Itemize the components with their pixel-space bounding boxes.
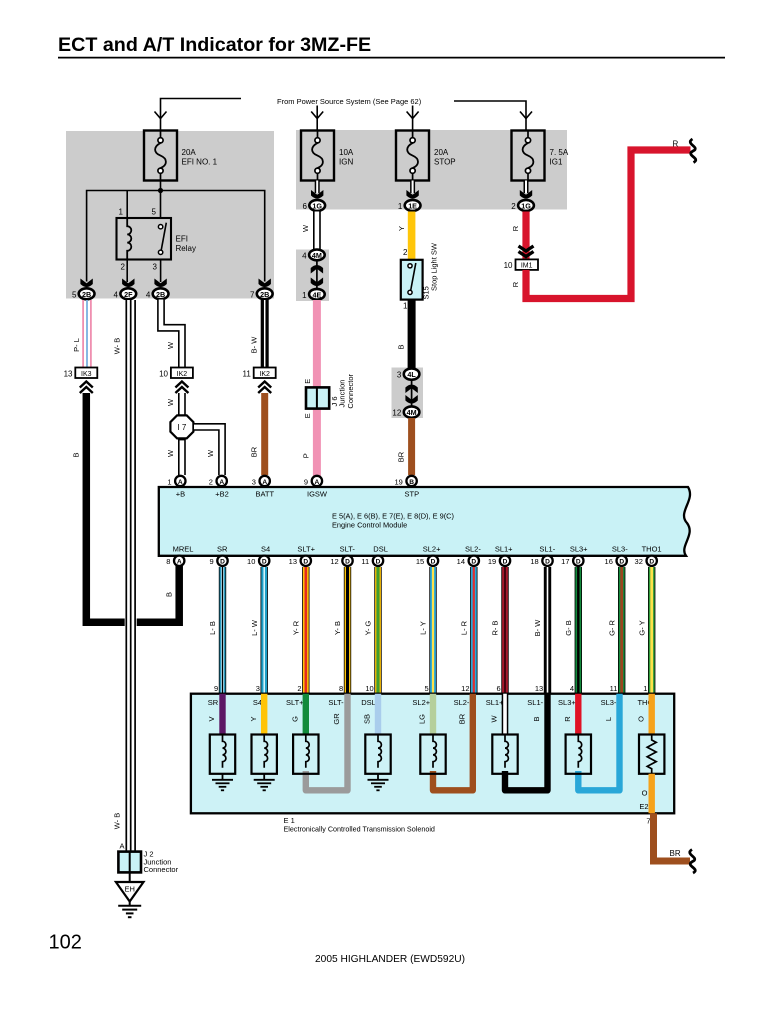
svg-text:EFI NO. 1: EFI NO. 1 (182, 158, 218, 167)
svg-text:LG: LG (418, 714, 427, 724)
svg-text:Stop Light SW: Stop Light SW (429, 242, 438, 291)
label E1 (284, 816, 435, 834)
wire B from S15 to 4L (396, 300, 411, 368)
wire feed to IGN fuse (311, 106, 323, 132)
svg-text:3: 3 (397, 371, 402, 380)
svg-text:2: 2 (511, 202, 516, 211)
svg-text:32: 32 (635, 557, 643, 566)
svg-text:16: 16 (605, 557, 613, 566)
wire Y from 1E to S15 (397, 212, 411, 261)
svg-text:SR: SR (208, 698, 219, 707)
svg-text:G- B: G- B (564, 620, 573, 635)
svg-text:Y- B: Y- B (333, 621, 342, 635)
svg-text:11: 11 (361, 557, 369, 566)
svg-text:15: 15 (416, 557, 424, 566)
svg-text:17: 17 (561, 557, 569, 566)
svg-text:12: 12 (392, 409, 401, 418)
wire O to resistor THO (636, 694, 651, 735)
fuse 10A IGN (301, 131, 354, 181)
title (58, 34, 725, 58)
wire BR from IK2 to BATT (250, 393, 265, 475)
wire relay pin2 down (126, 260, 128, 283)
svg-text:E: E (303, 379, 312, 384)
svg-text:2005 HIGHLANDER (EWD592U): 2005 HIGHLANDER (EWD592U) (315, 954, 465, 965)
svg-text:SLT-: SLT- (328, 698, 344, 707)
svg-text:11: 11 (610, 684, 618, 693)
svg-text:1G: 1G (521, 201, 531, 210)
svg-text:EFI: EFI (176, 235, 188, 244)
svg-text:D: D (503, 559, 508, 566)
svg-text:SR: SR (217, 545, 228, 554)
svg-text:6: 6 (497, 684, 501, 693)
svg-text:O: O (642, 789, 648, 798)
svg-text:W: W (166, 398, 175, 406)
svg-text:2B: 2B (260, 290, 269, 299)
svg-text:Y: Y (397, 226, 406, 231)
svg-text:10: 10 (159, 369, 168, 378)
svg-text:Y: Y (249, 716, 258, 721)
wire Y-B SLT- (333, 567, 347, 694)
svg-text:1: 1 (302, 291, 307, 300)
svg-text:E2: E2 (639, 802, 648, 811)
pin A2 +B2 (209, 476, 229, 499)
connector 2F pin 4 (114, 279, 137, 300)
wire feed to EFI fuse (155, 99, 242, 132)
pin D18 SL1- (530, 556, 552, 567)
svg-text:9: 9 (210, 557, 214, 566)
wire W from I7 to +B (166, 438, 182, 475)
svg-text:D: D (262, 559, 267, 566)
wire R from 1G2 to IM1 (511, 212, 526, 260)
wire GR return SLT- (306, 694, 348, 791)
svg-text:S4: S4 (253, 698, 262, 707)
svg-text:DSL: DSL (361, 698, 376, 707)
wire LG to solenoid SL2+ (418, 694, 433, 735)
pin D12 SLT- (330, 556, 352, 567)
wire fuse IG1 to 1G (524, 181, 529, 194)
wire W from 2B4 to IK2 (161, 300, 182, 368)
svg-text:Electronically Controlled Tran: Electronically Controlled Transmission S… (284, 825, 435, 834)
svg-text:W: W (166, 449, 175, 457)
svg-text:IG1: IG1 (550, 158, 563, 167)
svg-text:Engine Control Module: Engine Control Module (332, 521, 407, 530)
svg-text:10A: 10A (339, 148, 354, 157)
wire BR return SL2- (433, 694, 473, 791)
svg-text:BR: BR (670, 849, 681, 858)
pin B19 STP (394, 476, 419, 499)
svg-text:G- Y: G- Y (637, 620, 646, 635)
svg-text:D: D (376, 559, 381, 566)
switch S15 stop light SW (401, 242, 439, 310)
pin D9 SR (210, 556, 228, 567)
svg-text:1G: 1G (312, 201, 322, 210)
relay EFI (117, 208, 196, 272)
svg-text:SL1-: SL1- (527, 698, 543, 707)
svg-text:8: 8 (339, 684, 343, 693)
pin A8 MREL (166, 556, 184, 567)
wire V to solenoid SR (207, 694, 222, 735)
solenoid coil SR (210, 735, 235, 774)
wire between 4L and 4M (405, 381, 417, 407)
pin D10 S4 (247, 556, 269, 567)
pin D16 SL3- (605, 556, 627, 567)
solenoid coil S4 (252, 735, 277, 774)
svg-text:20A: 20A (434, 148, 449, 157)
wire Y-G DSL (364, 567, 378, 694)
svg-text:13: 13 (64, 369, 73, 378)
junction IK2 pin 10 (159, 368, 193, 394)
pin A9 IGSW (304, 476, 328, 499)
shaded block fuse band right (296, 130, 567, 210)
wire BR from E2 pin 7 to page break (646, 813, 690, 861)
svg-text:12: 12 (330, 557, 338, 566)
junction connector J6 (306, 373, 355, 408)
transmission solenoid box E1 (191, 694, 674, 814)
solenoid coil SL3 (566, 735, 591, 774)
svg-text:L- W: L- W (250, 619, 259, 636)
ground below DSL solenoid (368, 774, 389, 791)
svg-text:2F: 2F (124, 290, 133, 299)
svg-text:SLT-: SLT- (340, 545, 356, 554)
svg-text:13: 13 (535, 684, 543, 693)
svg-text:SL1+: SL1+ (495, 545, 513, 554)
svg-text:Relay: Relay (176, 244, 196, 253)
svg-text:D: D (649, 559, 654, 566)
fuse 20A EFI NO.1 (144, 131, 218, 181)
svg-text:SL3-: SL3- (612, 545, 628, 554)
svg-text:D: D (619, 559, 624, 566)
svg-text:5: 5 (72, 290, 77, 299)
connector 4M pin 4 (302, 250, 325, 261)
svg-text:B: B (532, 716, 541, 721)
noise filter I7 (170, 415, 193, 438)
svg-text:10: 10 (504, 261, 513, 270)
svg-text:EH: EH (124, 885, 134, 894)
ECM engine control module E5-E9 (159, 487, 690, 556)
svg-text:STOP: STOP (434, 158, 456, 167)
svg-text:1: 1 (167, 477, 171, 486)
svg-text:L: L (604, 717, 613, 721)
svg-text:10: 10 (247, 557, 255, 566)
svg-text:BATT: BATT (255, 490, 274, 499)
svg-text:20A: 20A (182, 148, 197, 157)
svg-text:W: W (206, 449, 215, 457)
svg-text:IGN: IGN (339, 158, 353, 167)
svg-text:SLT+: SLT+ (286, 698, 304, 707)
svg-text:4: 4 (146, 290, 151, 299)
svg-text:9: 9 (214, 684, 218, 693)
wire O from resistor to E2 (639, 774, 651, 814)
ground below S4 solenoid (254, 774, 275, 791)
svg-text:SL2+: SL2+ (412, 698, 430, 707)
svg-text:R: R (511, 225, 520, 231)
svg-text:4M: 4M (312, 251, 322, 260)
svg-text:SL2-: SL2- (465, 545, 481, 554)
solenoid coil SLT (293, 735, 318, 774)
pin D13 SLT+ (289, 556, 311, 567)
svg-text:2: 2 (403, 248, 408, 257)
ground EH (116, 872, 144, 917)
svg-text:6: 6 (302, 202, 307, 211)
wire feed to IG1 fuse (454, 101, 532, 131)
svg-text:4: 4 (302, 251, 307, 260)
svg-text:B: B (409, 479, 414, 486)
svg-text:1: 1 (119, 208, 124, 217)
svg-text:THO1: THO1 (642, 545, 662, 554)
svg-text:2: 2 (297, 684, 301, 693)
svg-text:19: 19 (488, 557, 496, 566)
wire fuse EFI to junction (160, 181, 162, 219)
wire P-L from 2B5 to IK3 (72, 300, 91, 368)
solenoid coil SL1 (492, 735, 517, 774)
svg-text:L- R: L- R (460, 620, 469, 635)
svg-text:4M: 4M (407, 408, 417, 417)
svg-text:V: V (207, 716, 216, 721)
svg-text:I 7: I 7 (177, 423, 186, 432)
shaded block 4M-4E (296, 250, 329, 302)
svg-text:D: D (220, 559, 225, 566)
svg-text:4L: 4L (407, 370, 416, 379)
svg-text:W- B: W- B (113, 813, 122, 830)
svg-text:19: 19 (394, 477, 402, 486)
wire break symbol BR (690, 850, 696, 874)
connector 2B pin 7 (250, 279, 273, 300)
svg-text:9: 9 (304, 477, 308, 486)
svg-text:SL1+: SL1+ (486, 698, 504, 707)
svg-text:Connector: Connector (144, 865, 179, 874)
svg-text:SLT+: SLT+ (297, 545, 315, 554)
arrows into IM1 (519, 246, 534, 257)
svg-text:ECT and A/T Indicator for 3MZ-: ECT and A/T Indicator for 3MZ-FE (58, 34, 371, 56)
svg-text:R: R (563, 716, 572, 722)
svg-text:D: D (303, 559, 308, 566)
solenoid coil DSL (365, 735, 390, 774)
wire Y to solenoid S4 (249, 694, 264, 735)
junction IK3 (64, 368, 98, 394)
svg-text:18: 18 (530, 557, 538, 566)
wire B-W from 2B7 to IK2 (250, 300, 265, 368)
wire break symbol R (690, 139, 696, 163)
wire BR from 4M to STP (396, 418, 411, 475)
wire bus to relay and connectors (87, 191, 265, 282)
wire fuse IGN to 1G (315, 181, 320, 194)
label From Power Source System (277, 97, 422, 106)
wire R-B SL1+ (491, 567, 505, 694)
svg-text:3: 3 (256, 684, 260, 693)
svg-text:7: 7 (646, 817, 650, 826)
svg-text:A: A (219, 479, 224, 486)
pin D32 THO1 (635, 556, 657, 567)
pin D15 SL2+ (416, 556, 438, 567)
footer (315, 954, 465, 965)
wire G-Y THO1 (637, 567, 651, 694)
svg-text:BR: BR (458, 713, 467, 724)
svg-text:SL2-: SL2- (454, 698, 470, 707)
svg-text:4E: 4E (313, 290, 322, 299)
svg-text:GR: GR (332, 713, 341, 725)
svg-text:A: A (315, 479, 320, 486)
wire W-B from 2F to J2 (113, 300, 137, 852)
wire W from I7 to +B2 (193, 427, 222, 475)
svg-text:D: D (345, 559, 350, 566)
svg-text:4: 4 (570, 684, 574, 693)
svg-text:A: A (262, 479, 267, 486)
svg-text:Y- R: Y- R (292, 620, 301, 635)
wire W from IK2 to I7 (166, 393, 182, 416)
solenoid box terminal labels (208, 698, 654, 707)
svg-text:B: B (72, 452, 81, 457)
page number (49, 932, 82, 954)
svg-text:5: 5 (425, 684, 429, 693)
svg-text:IGSW: IGSW (307, 490, 328, 499)
fuse 7.5A IG1 (512, 131, 569, 181)
svg-text:D: D (471, 559, 476, 566)
connector 4M pin 12 (392, 406, 419, 417)
connector 1G pin 6 (302, 190, 325, 211)
svg-text:3: 3 (153, 263, 158, 272)
svg-text:Y- G: Y- G (364, 620, 373, 635)
svg-text:D: D (431, 559, 436, 566)
connector 2B pin 4 (146, 279, 169, 300)
junction connector J2 (118, 842, 178, 875)
svg-text:L- Y: L- Y (419, 621, 428, 635)
svg-text:W- B: W- B (113, 338, 122, 355)
svg-text:B- W: B- W (250, 336, 259, 354)
wire L-Y SL2+ (419, 567, 433, 694)
svg-text:IK3: IK3 (81, 371, 92, 378)
wire G-R SL3- (607, 567, 621, 694)
svg-text:2B: 2B (156, 290, 165, 299)
svg-text:W: W (301, 224, 310, 232)
resistor THO (639, 735, 664, 774)
svg-text:13: 13 (289, 557, 297, 566)
svg-text:7. 5A: 7. 5A (550, 148, 569, 157)
svg-text:R: R (511, 281, 520, 287)
wire W from 1G6 to 4M (301, 212, 317, 251)
wire L-B SR (208, 567, 222, 694)
pin D14 SL2- (457, 556, 479, 567)
junction IM1 pin 10 (504, 259, 538, 270)
svg-text:5: 5 (152, 208, 157, 217)
svg-text:R: R (673, 140, 679, 149)
svg-text:11: 11 (242, 369, 251, 378)
svg-text:SL1-: SL1- (539, 545, 555, 554)
wire G to solenoid SLT+ (291, 694, 306, 735)
ECM bottom labels (173, 545, 662, 554)
svg-text:DSL: DSL (373, 545, 388, 554)
svg-text:B- W: B- W (533, 619, 542, 637)
pin D17 SL3+ (561, 556, 583, 567)
svg-text:B: B (396, 344, 405, 349)
svg-text:SL3+: SL3+ (558, 698, 576, 707)
svg-text:A: A (177, 559, 182, 566)
connector 2B pin 5 (72, 279, 94, 300)
wire L-W S4 (250, 567, 264, 694)
svg-text:A: A (119, 842, 124, 851)
svg-text:3: 3 (252, 477, 256, 486)
pin D11 DSL (361, 556, 383, 567)
svg-text:MREL: MREL (173, 545, 194, 554)
svg-text:SL2+: SL2+ (423, 545, 441, 554)
svg-text:1: 1 (643, 684, 647, 693)
svg-text:B: B (165, 592, 174, 597)
svg-text:A: A (178, 479, 183, 486)
ground below SR solenoid (212, 774, 233, 791)
svg-text:10: 10 (365, 684, 373, 693)
wire fuse STOP to 1E (410, 181, 415, 194)
shaded block left (engine room relay block) (66, 131, 274, 299)
wire between 4M and 4E (311, 261, 323, 288)
wire P from 4E to IGSW via J6 (302, 300, 317, 476)
svg-text:D: D (545, 559, 550, 566)
wire L-R SL2- (460, 567, 474, 694)
wire B return SL1- (505, 694, 548, 791)
svg-text:P- L: P- L (72, 338, 81, 352)
wire R to solenoid SL3+ (563, 694, 578, 735)
svg-text:+B2: +B2 (215, 490, 229, 499)
svg-text:102: 102 (49, 932, 82, 954)
svg-text:Connector: Connector (346, 373, 355, 408)
svg-text:E 5(A), E 6(B), E 7(E), E 8(D): E 5(A), E 6(B), E 7(E), E 8(D), E 9(C) (332, 512, 454, 521)
svg-text:SL3-: SL3- (601, 698, 617, 707)
svg-text:E: E (303, 413, 312, 418)
svg-text:14: 14 (457, 557, 465, 566)
svg-text:7: 7 (250, 290, 255, 299)
svg-text:1: 1 (398, 202, 403, 211)
svg-text:IK2: IK2 (177, 371, 188, 378)
svg-text:BR: BR (250, 446, 259, 457)
pin A1 +B (167, 476, 185, 499)
svg-text:S4: S4 (261, 545, 270, 554)
wire W to solenoid SL1+ (490, 694, 505, 735)
wire SB to solenoid DSL (363, 694, 378, 735)
svg-text:2: 2 (121, 263, 126, 272)
svg-text:4: 4 (114, 290, 119, 299)
svg-text:P: P (302, 453, 311, 458)
svg-text:R- B: R- B (491, 621, 500, 636)
svg-text:O: O (636, 716, 645, 722)
svg-text:W: W (490, 715, 499, 723)
connector 1G pin 2 (511, 190, 534, 211)
wire B from IK3 to ECM MREL (72, 393, 180, 622)
svg-text:2B: 2B (82, 290, 91, 299)
connector 4E pin 1 (302, 289, 325, 300)
wire relay pin3 down (160, 260, 162, 283)
node junction dot (158, 188, 163, 193)
wire G-B SL3+ (564, 567, 578, 694)
svg-text:W: W (166, 341, 175, 349)
svg-text:8: 8 (166, 557, 170, 566)
wire feed to STOP fuse (407, 106, 419, 132)
svg-text:D: D (576, 559, 581, 566)
wire R from IM1 to page break (511, 140, 691, 299)
svg-text:12: 12 (461, 684, 469, 693)
wire Y-R SLT+ (292, 567, 306, 694)
svg-text:BR: BR (396, 451, 405, 462)
svg-text:SB: SB (363, 714, 372, 724)
svg-text:G- R: G- R (607, 620, 616, 636)
svg-text:IK2: IK2 (259, 371, 270, 378)
svg-text:From Power Source System (See: From Power Source System (See Page 62) (277, 97, 422, 106)
connector 1E pin 1 (398, 190, 421, 211)
junction IK2 pin 11 (242, 368, 275, 394)
svg-text:1E: 1E (408, 201, 417, 210)
svg-text:L- B: L- B (208, 621, 217, 635)
fuse 20A STOP (396, 131, 456, 181)
svg-text:IM1: IM1 (521, 263, 533, 270)
svg-text:SL3+: SL3+ (570, 545, 588, 554)
svg-text:STP: STP (405, 490, 420, 499)
